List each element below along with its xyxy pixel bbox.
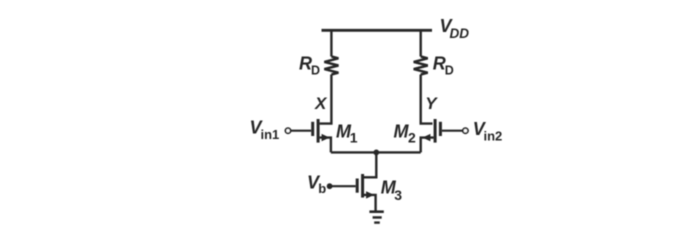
svg-text:in2: in2 <box>484 128 503 143</box>
svg-text:X: X <box>314 94 328 113</box>
svg-text:2: 2 <box>408 129 416 145</box>
svg-text:b: b <box>318 181 326 196</box>
svg-text:1: 1 <box>350 129 358 145</box>
svg-text:3: 3 <box>394 187 402 203</box>
svg-text:Y: Y <box>425 94 438 113</box>
svg-text:DD: DD <box>450 26 470 41</box>
svg-text:D: D <box>445 63 454 77</box>
svg-text:D: D <box>311 63 320 77</box>
svg-text:in1: in1 <box>261 127 280 142</box>
